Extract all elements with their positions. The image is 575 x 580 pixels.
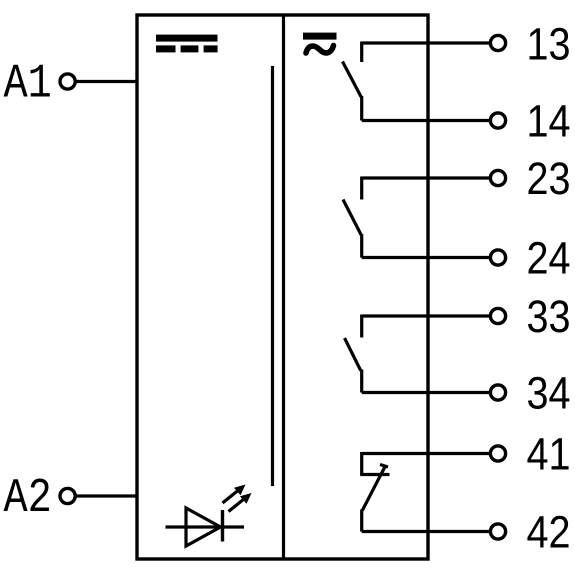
wire terminal 42 xyxy=(362,530,491,533)
moving contact stub 34 xyxy=(360,370,363,393)
fixed contact bar 41 (NC seat) xyxy=(360,473,389,476)
svg-text:33: 33 xyxy=(527,292,571,342)
pin label 13 xyxy=(527,19,571,69)
contact blade 33-34 (NO) xyxy=(345,338,361,371)
fixed contact stub 33 xyxy=(360,315,363,338)
terminal circle 14 xyxy=(490,113,505,128)
LED indicator diode xyxy=(166,508,245,546)
svg-text:A1: A1 xyxy=(4,57,52,111)
wire terminal 13 xyxy=(362,41,491,44)
compartment divider wall xyxy=(282,15,285,559)
wire terminal 14 xyxy=(362,119,491,122)
svg-text:24: 24 xyxy=(527,233,571,283)
pin label 23 xyxy=(527,154,571,204)
wire terminal 34 xyxy=(362,391,491,394)
fixed contact stub 41 xyxy=(360,452,363,475)
moving contact stub 42 xyxy=(360,510,363,532)
terminal circle 33 xyxy=(490,308,505,323)
svg-text:A2: A2 xyxy=(4,472,52,526)
wire A2 to coil box xyxy=(75,494,139,497)
terminal circle 34 xyxy=(490,385,505,400)
contact blade 23-24 (NO) xyxy=(343,200,361,236)
terminal circle 41 xyxy=(490,446,505,461)
svg-text:23: 23 xyxy=(527,154,571,204)
AC/DC coil symbol (bar over tilde) xyxy=(303,33,337,53)
LED emission arrow 2 xyxy=(229,493,252,512)
svg-text:34: 34 xyxy=(527,368,571,418)
moving contact stub 24 xyxy=(360,234,363,258)
wire terminal 41 xyxy=(362,452,491,455)
pin label A1 xyxy=(4,57,52,111)
pin label 34 xyxy=(527,368,571,418)
LED emission arrow 1 xyxy=(223,485,246,504)
wire terminal 23 xyxy=(362,176,491,179)
fixed contact stub 13 xyxy=(360,42,363,63)
svg-text:14: 14 xyxy=(527,96,571,146)
terminal circle 42 xyxy=(490,524,505,539)
pin label 14 xyxy=(527,96,571,146)
terminal circle 23 xyxy=(490,170,505,185)
pin label 24 xyxy=(527,233,571,283)
wire terminal 33 xyxy=(362,314,491,317)
relay body outline xyxy=(137,15,428,559)
isolation barrier line xyxy=(271,66,274,486)
fixed contact stub 23 xyxy=(360,177,363,200)
terminal circle 13 xyxy=(490,35,505,50)
wire A1 to coil box xyxy=(75,80,139,83)
DC supply symbol (solid bar over dashed bar) xyxy=(156,35,218,53)
pin label 42 xyxy=(527,507,571,557)
moving contact stub 14 xyxy=(360,96,363,121)
pin label 41 xyxy=(527,429,571,479)
contact blade 13-14 (NO) xyxy=(343,62,362,98)
svg-text:42: 42 xyxy=(527,507,571,557)
contact blade 41-42 (NC) xyxy=(362,465,388,511)
terminal circle A2 xyxy=(60,488,75,503)
svg-text:41: 41 xyxy=(527,429,571,479)
terminal circle A1 xyxy=(60,74,75,89)
pin label A2 xyxy=(4,472,52,526)
wire terminal 24 xyxy=(362,256,491,259)
svg-text:13: 13 xyxy=(527,19,571,69)
pin label 33 xyxy=(527,292,571,342)
terminal circle 24 xyxy=(490,250,505,265)
